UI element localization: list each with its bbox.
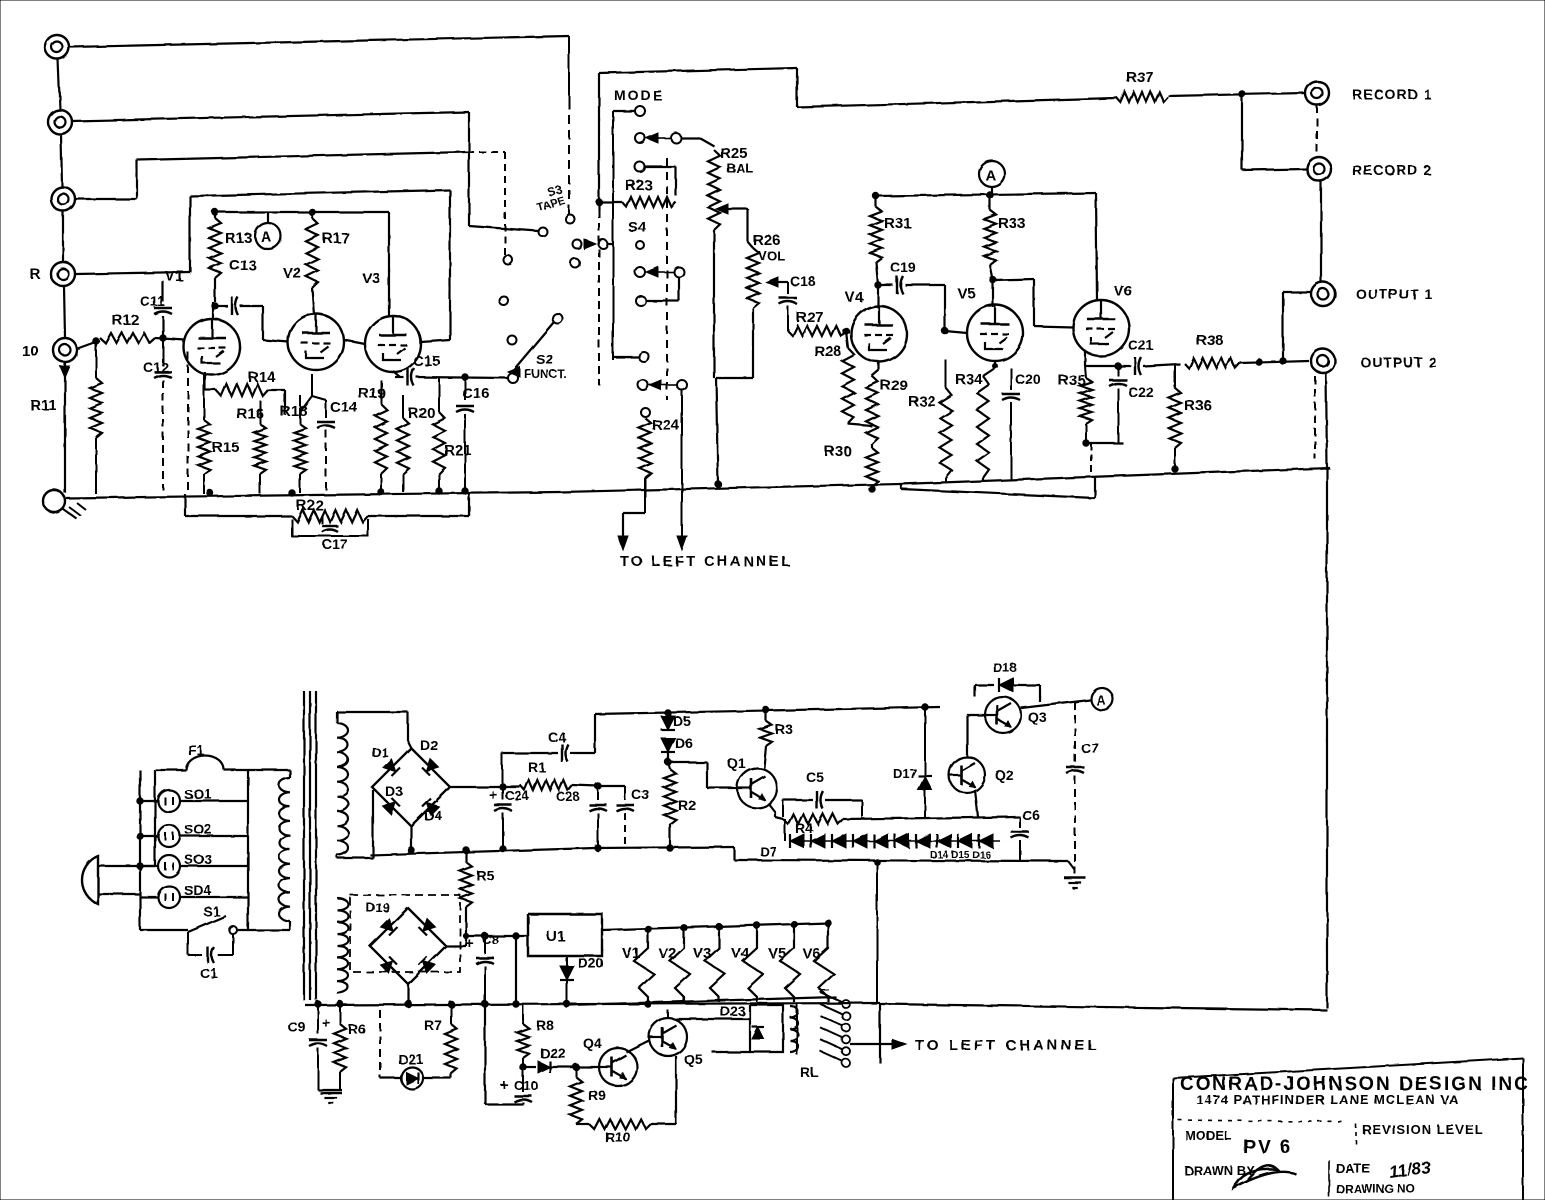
svg-text:A: A: [1096, 692, 1106, 708]
svg-text:R11: R11: [30, 397, 57, 414]
svg-text:1474 PATHFINDER LANE MCLEAN: 1474 PATHFINDER LANE MCLEAN VA: [1196, 1092, 1459, 1107]
svg-text:D23: D23: [720, 1003, 746, 1019]
svg-text:V5: V5: [768, 945, 786, 962]
svg-text:V2: V2: [283, 265, 301, 282]
svg-text:C14: C14: [330, 399, 358, 416]
svg-text:MODE: MODE: [614, 87, 664, 103]
svg-text:R6: R6: [348, 1021, 366, 1037]
svg-text:C21: C21: [1128, 337, 1154, 353]
svg-text:R36: R36: [1184, 397, 1212, 414]
svg-text:R32: R32: [908, 393, 936, 410]
svg-text:V1: V1: [622, 945, 640, 962]
svg-text:R28: R28: [814, 343, 842, 360]
svg-text:S2: S2: [536, 351, 553, 367]
svg-text:R5: R5: [476, 867, 494, 883]
svg-text:C20: C20: [1015, 371, 1041, 387]
svg-text:R2: R2: [678, 797, 696, 813]
svg-text:DATE: DATE: [1336, 1161, 1371, 1176]
svg-text:C4: C4: [548, 729, 566, 745]
svg-text:D6: D6: [675, 735, 693, 751]
svg-text:R33: R33: [998, 215, 1026, 232]
svg-text:D22: D22: [540, 1045, 566, 1061]
svg-text:C5: C5: [806, 769, 824, 785]
svg-text:R37: R37: [1126, 69, 1154, 86]
svg-text:C9: C9: [288, 1019, 306, 1035]
svg-text:R7: R7: [424, 1017, 442, 1033]
svg-text:R29: R29: [880, 377, 908, 394]
svg-text:RL: RL: [800, 1064, 819, 1080]
svg-text:D17: D17: [893, 766, 917, 781]
svg-text:A: A: [985, 167, 996, 184]
svg-text:Q2: Q2: [995, 767, 1014, 783]
svg-text:SO3: SO3: [184, 851, 212, 867]
svg-text:RECORD 1: RECORD 1: [1352, 86, 1432, 102]
svg-text:PV 6: PV 6: [1243, 1137, 1292, 1158]
svg-text:R14: R14: [248, 369, 276, 386]
svg-text:C13: C13: [229, 257, 257, 274]
svg-text:C7: C7: [1081, 740, 1099, 756]
svg-text:D20: D20: [578, 955, 604, 971]
svg-text:V5: V5: [957, 285, 975, 302]
svg-text:V6: V6: [1114, 283, 1132, 300]
svg-text:C6: C6: [1022, 807, 1040, 823]
svg-text:R38: R38: [1196, 332, 1224, 349]
svg-text:R21: R21: [444, 442, 472, 459]
svg-text:C3: C3: [631, 786, 649, 802]
svg-text:V4: V4: [845, 289, 864, 306]
svg-text:10: 10: [22, 343, 39, 360]
svg-text:V3: V3: [693, 945, 711, 962]
svg-text:R26: R26: [753, 232, 781, 249]
svg-text:RECORD 2: RECORD 2: [1352, 162, 1432, 178]
svg-text:OUTPUT 1: OUTPUT 1: [1356, 286, 1433, 302]
svg-text:D21: D21: [398, 1051, 424, 1067]
svg-text:TO LEFT CHANNEL: TO LEFT CHANNEL: [620, 554, 793, 570]
svg-text:R25: R25: [720, 145, 748, 162]
svg-text:V6: V6: [802, 945, 820, 962]
svg-text:BAL: BAL: [727, 161, 754, 176]
svg-text:DRAWING NO: DRAWING NO: [1336, 1182, 1415, 1196]
svg-text:D18: D18: [993, 660, 1017, 675]
svg-text:D14 D15 D16: D14 D15 D16: [930, 850, 991, 861]
svg-text:Q4: Q4: [583, 1035, 602, 1051]
svg-text:R18: R18: [280, 403, 308, 420]
svg-text:C10: C10: [514, 1078, 538, 1093]
svg-text:TO LEFT CHANNEL: TO LEFT CHANNEL: [915, 1037, 1100, 1054]
svg-text:R3: R3: [775, 721, 793, 737]
svg-text:SO2: SO2: [184, 821, 212, 837]
svg-text:C18: C18: [790, 273, 816, 289]
svg-text:+: +: [322, 1015, 331, 1032]
svg-text:Q1: Q1: [727, 755, 746, 771]
svg-text:REVISION LEVEL: REVISION LEVEL: [1362, 1122, 1484, 1137]
svg-text:S1: S1: [203, 903, 220, 919]
svg-text:C11: C11: [140, 293, 165, 309]
svg-text:C19: C19: [890, 259, 916, 275]
svg-text:D1: D1: [372, 745, 389, 760]
svg-text:D2: D2: [420, 737, 438, 753]
svg-text:R34: R34: [955, 371, 983, 388]
svg-text:C17: C17: [322, 536, 348, 552]
svg-text:+: +: [465, 935, 474, 952]
svg-text:R27: R27: [796, 309, 824, 326]
svg-text:V4: V4: [731, 945, 750, 962]
svg-text:R8: R8: [536, 1017, 554, 1033]
svg-text:R30: R30: [824, 443, 852, 460]
svg-text:R9: R9: [588, 1087, 606, 1103]
svg-text:V3: V3: [362, 270, 380, 287]
svg-text:R31: R31: [884, 215, 912, 232]
svg-text:D19: D19: [366, 900, 390, 915]
svg-text:+: +: [500, 1077, 509, 1094]
svg-text:OUTPUT 2: OUTPUT 2: [1360, 354, 1437, 370]
svg-text:C22: C22: [1128, 384, 1154, 400]
svg-text:R23: R23: [625, 177, 653, 194]
svg-text:U1: U1: [546, 928, 565, 945]
svg-text:D3: D3: [385, 783, 403, 799]
svg-text:S4: S4: [628, 219, 647, 236]
svg-text:SO1: SO1: [184, 786, 212, 802]
svg-text:C15: C15: [413, 353, 441, 370]
svg-text:R: R: [30, 266, 41, 283]
svg-text:FUNCT.: FUNCT.: [524, 367, 567, 381]
svg-text:R13: R13: [225, 230, 253, 247]
svg-text:V1: V1: [165, 268, 183, 285]
svg-text:R15: R15: [212, 439, 240, 456]
svg-text:R12: R12: [112, 312, 140, 329]
svg-text:+: +: [489, 787, 498, 804]
svg-text:V2: V2: [658, 945, 676, 962]
svg-text:Q5: Q5: [684, 1051, 703, 1067]
svg-text:R10: R10: [605, 1129, 631, 1145]
svg-text:D7: D7: [760, 844, 777, 859]
svg-text:D5: D5: [673, 713, 691, 729]
svg-text:R1: R1: [528, 759, 546, 775]
svg-text:R22: R22: [296, 497, 324, 514]
svg-text:R20: R20: [408, 405, 436, 422]
svg-text:R17: R17: [322, 230, 350, 247]
svg-text:VOL: VOL: [758, 248, 785, 263]
svg-text:A: A: [261, 229, 272, 246]
svg-text:D4: D4: [424, 807, 442, 823]
svg-text:R24: R24: [652, 417, 680, 434]
svg-text:C24: C24: [505, 788, 530, 803]
svg-text:C1: C1: [200, 965, 218, 981]
svg-text:Q3: Q3: [1028, 709, 1047, 725]
svg-text:MODEL: MODEL: [1185, 1128, 1232, 1143]
svg-text:C28: C28: [556, 789, 580, 804]
svg-text:C16: C16: [462, 385, 490, 402]
svg-text:SD4: SD4: [184, 882, 211, 898]
